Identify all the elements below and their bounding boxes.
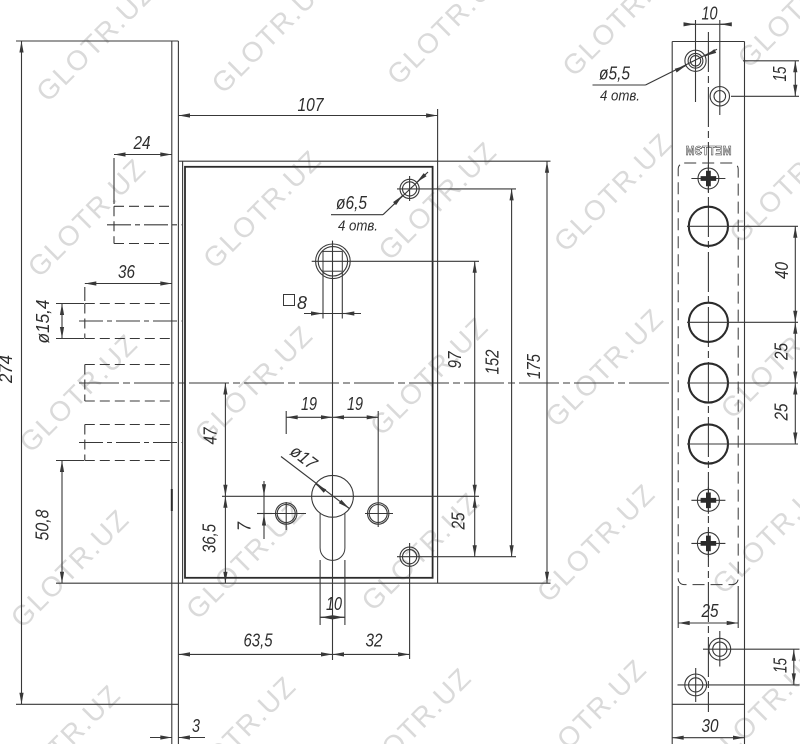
latch bolt hidden bottom edge <box>114 243 172 245</box>
dimension 10 text <box>326 594 342 614</box>
dimension 30 text <box>702 716 719 736</box>
dimension 24 text <box>133 133 151 153</box>
deadbolt 3 hidden bottom edge <box>85 460 172 462</box>
dimension 274 line <box>21 41 23 704</box>
label d17 text <box>286 441 321 474</box>
svg-text:50,8: 50,8 <box>33 510 53 541</box>
hole d6.5 top-right outer circle <box>400 179 419 198</box>
phillips screw middle 1 <box>691 487 725 514</box>
hole d6.5 bottom-right inner circle <box>403 550 417 564</box>
left side hole horizontal centerline <box>258 513 306 515</box>
latch bolt hidden top edge <box>114 205 172 207</box>
keyhole horizontal centerline <box>222 495 479 497</box>
svg-text:GLOTR.UZ: GLOTR.UZ <box>347 662 478 744</box>
svg-text:GLOTR.UZ: GLOTR.UZ <box>381 0 512 91</box>
label d6.5 leader arrow 2 <box>417 174 426 183</box>
dimension 25 text right 1 <box>772 342 792 361</box>
label d6.5 underline <box>331 214 383 216</box>
svg-text:GLOTR.UZ: GLOTR.UZ <box>732 0 800 74</box>
faceplate vertical centerline <box>707 32 709 712</box>
dimension 107 text <box>298 95 325 115</box>
left side hole inner circle <box>277 505 295 523</box>
dimension 7 line <box>263 481 265 539</box>
dimension 10 ext left <box>319 560 321 625</box>
left side hole outer circle <box>276 503 297 524</box>
faceplate front right edge <box>744 42 746 744</box>
dimension 25 text right 2 <box>772 403 792 422</box>
dimension 32 text <box>366 631 383 651</box>
dimension 36.5 line <box>224 496 226 583</box>
dimension 36 line <box>85 283 172 285</box>
latch bolt hidden left edge <box>113 206 115 243</box>
svg-text:8: 8 <box>297 293 307 313</box>
dimension 19 right line <box>333 416 379 418</box>
dimension 25 bottom text <box>701 601 720 621</box>
dimension 10 arrow right <box>334 616 344 618</box>
deadbolt 2 hidden top edge <box>85 364 172 366</box>
label 4 holes text <box>338 218 378 235</box>
dimension 50.8 text <box>33 510 53 541</box>
dimension 15 top text <box>770 66 790 82</box>
right side hole horizontal centerline <box>365 513 393 515</box>
dimension 107 line <box>179 115 438 117</box>
dimension 36 extension line <box>84 287 86 301</box>
screw hole d5.5 top middle circle <box>688 53 703 68</box>
dimension 47 text <box>201 427 221 445</box>
svg-text:МЕТТЭМ: МЕТТЭМ <box>686 144 732 158</box>
svg-text:274: 274 <box>0 355 16 384</box>
dimension 15 bottom text <box>771 657 791 673</box>
hole d6.5 bottom-right horizontal centerline <box>397 556 516 558</box>
dimension 25 bottom line <box>678 622 738 624</box>
cylinder hole edge in side view <box>171 489 173 511</box>
label d6.5 leader arrow 1 <box>394 195 403 204</box>
dimension 15 top ext 2 <box>731 95 799 97</box>
keyhole circle d17 <box>312 475 354 517</box>
dimension 10 ext line 1 <box>695 20 697 102</box>
dimension 32 line <box>333 653 410 655</box>
svg-text:25: 25 <box>701 601 720 621</box>
svg-text:25: 25 <box>772 403 792 422</box>
dimension 7 text <box>235 521 255 531</box>
dimension 8 text <box>297 293 307 313</box>
dimension 7 ext <box>257 513 272 515</box>
svg-text:GLOTR.UZ: GLOTR.UZ <box>723 118 800 249</box>
dimension 19 ext left <box>285 411 287 434</box>
svg-text:ø5,5: ø5,5 <box>599 64 631 84</box>
dimension 15 top line <box>794 61 796 97</box>
svg-text:GLOTR.UZ: GLOTR.UZ <box>30 0 161 108</box>
svg-text:15: 15 <box>771 657 791 673</box>
svg-text:19: 19 <box>347 394 363 414</box>
svg-text:GLOTR.UZ: GLOTR.UZ <box>206 0 337 99</box>
dimension 30 line <box>672 737 744 739</box>
dimension 8 line <box>304 313 361 315</box>
dimension 19 left text <box>301 394 317 414</box>
svg-text:GLOTR.UZ: GLOTR.UZ <box>539 302 670 433</box>
dimension 7 arrow bottom <box>263 514 265 526</box>
dimension 15 top ext 1 <box>743 60 799 62</box>
deadbolt 2 hidden bottom edge <box>85 400 172 402</box>
spindle hole outer circle <box>316 244 351 279</box>
hole d6.5 bottom-right vertical centerline and 32 extension <box>409 543 411 659</box>
dimension 40 line <box>794 226 796 322</box>
deadbolt 3 hidden top edge <box>85 424 172 426</box>
bottom screw hole right v-centerline <box>719 631 721 667</box>
dimension 97 text <box>445 351 465 369</box>
faceplate front top edge <box>672 41 744 43</box>
hole d6.5 top-right inner circle <box>403 182 417 196</box>
svg-text:97: 97 <box>445 351 465 369</box>
svg-text:GLOTR.UZ: GLOTR.UZ <box>13 328 144 459</box>
svg-text:GLOTR.UZ: GLOTR.UZ <box>548 127 679 258</box>
dimension 36.5 text <box>200 523 220 553</box>
dimension 50.8 line <box>61 461 63 584</box>
faceplate side view bottom edge extension <box>16 703 178 705</box>
screw hole d5.5 top outer circle <box>685 50 706 71</box>
svg-text:152: 152 <box>483 350 503 375</box>
bottom screw hole right outer circle <box>709 638 731 660</box>
right side hole inner circle <box>369 505 387 523</box>
svg-text:30: 30 <box>702 716 719 736</box>
svg-text:10: 10 <box>702 4 718 24</box>
body outer top edge <box>179 160 551 162</box>
bottom screw hole left v-centerline <box>695 668 697 702</box>
dimension 8 ext right <box>341 272 343 319</box>
dimension 25 line right 1 <box>794 322 796 383</box>
spindle hole horizontal centerline <box>312 260 479 262</box>
label d5.5 underline <box>593 84 646 86</box>
label d17 leader line <box>281 457 349 509</box>
dimension 40 text <box>772 262 792 279</box>
svg-text:24: 24 <box>133 133 151 153</box>
dimension 175 text <box>524 353 544 379</box>
svg-text:40: 40 <box>772 262 792 279</box>
dimension d15.4 ext bottom <box>56 338 84 340</box>
dimension 50.8 ext top <box>56 460 84 462</box>
dimension 175 line <box>546 161 548 583</box>
dimension 15 bottom line <box>793 649 795 685</box>
hole d6.5 top-right horizontal centerline <box>397 188 516 190</box>
deadbolt 1 hidden left edge <box>84 304 86 339</box>
svg-text:15: 15 <box>770 66 790 82</box>
right side hole outer circle <box>368 503 389 524</box>
dimension 47 line <box>224 383 226 496</box>
dimension 3 text <box>192 716 200 736</box>
spindle hole inner circle <box>318 247 347 276</box>
label d5.5 4 holes text <box>600 88 640 105</box>
svg-text:107: 107 <box>298 95 325 115</box>
faceplate side view top edge <box>16 40 178 42</box>
bottom screw hole left inner circle <box>689 678 703 692</box>
svg-text:ø15,4: ø15,4 <box>33 300 53 344</box>
dimension 25 bottom ext right <box>737 586 739 628</box>
svg-text:175: 175 <box>524 353 544 379</box>
deadbolt 1 hidden top edge <box>85 303 172 305</box>
dimension 152 text <box>483 350 503 375</box>
faceplate side view front face line <box>171 41 173 744</box>
svg-text:7: 7 <box>235 521 255 531</box>
dimension 10 top arrow right <box>720 23 730 25</box>
svg-text:36,5: 36,5 <box>200 523 220 553</box>
hole d6.5 top-right vertical centerline <box>409 176 411 201</box>
svg-text:ø17: ø17 <box>286 441 321 474</box>
label d6.5 text <box>336 193 368 213</box>
bottom screw hole right inner circle <box>713 642 727 656</box>
dimension 10 ext line 2 <box>719 20 721 115</box>
label d5.5 arrow 2 <box>705 52 714 57</box>
screw hole d5.5 top inner circle <box>690 56 700 66</box>
dimension 3 line left segment <box>150 737 172 739</box>
dimension 7 arrow top <box>263 484 265 496</box>
dimension 36 text <box>118 262 136 282</box>
hole d6.5 bottom-right outer circle <box>400 547 419 566</box>
screw hole top-right outer circle <box>710 87 729 106</box>
body inner thick outline <box>185 167 433 578</box>
latch bolt centerline <box>107 224 182 226</box>
dimension 10 top arrow left <box>685 23 695 25</box>
svg-text:47: 47 <box>201 427 221 445</box>
svg-text:4 отв.: 4 отв. <box>600 88 640 105</box>
svg-text:GLOTR.UZ: GLOTR.UZ <box>180 495 311 626</box>
bolt hole circle 1 (latch) <box>687 207 798 246</box>
deadbolt 1 centerline <box>79 320 182 322</box>
hidden lock body dashed outline <box>678 163 738 585</box>
bottom screw hole right h-centerline <box>703 648 800 650</box>
main horizontal centerline <box>79 382 672 384</box>
dimension 274 text <box>0 355 16 384</box>
deadbolt 2 hidden left edge <box>84 365 86 402</box>
bolt hole circle 3 <box>687 363 798 402</box>
spindle square hole <box>323 251 342 271</box>
dimension d15.4 text <box>33 300 53 344</box>
svg-text:GLOTR.UZ: GLOTR.UZ <box>522 653 653 744</box>
dimension 10 arrow left <box>321 616 331 618</box>
dimension 152 line <box>511 189 513 557</box>
label d5.5 text <box>599 64 631 84</box>
dimension d15.4 ext top <box>56 303 84 305</box>
dimension d15.4 line <box>61 304 63 339</box>
dimension 19 ext right <box>377 411 379 527</box>
left side hole vertical centerline <box>285 502 287 530</box>
svg-text:GLOTR.UZ: GLOTR.UZ <box>706 469 800 600</box>
dimension 25 bottom ext left <box>677 586 679 628</box>
dimension 10 top text <box>702 4 718 24</box>
vertical centerline through spindle and keyhole <box>332 241 334 660</box>
svg-text:10: 10 <box>326 594 342 614</box>
screw hole top-right inner circle <box>714 91 726 103</box>
phillips screw middle 2 <box>691 530 725 557</box>
label d17 arrow lower <box>340 501 349 508</box>
body outer right edge and 107 extension <box>437 109 439 583</box>
faceplate front left edge <box>671 42 673 744</box>
svg-text:GLOTR.UZ: GLOTR.UZ <box>531 478 662 609</box>
label d5.5 leader line <box>646 49 718 85</box>
svg-text:25: 25 <box>449 512 469 531</box>
body outer bottom edge extension <box>56 582 551 584</box>
faceplate side view back face line <box>177 41 179 744</box>
dimension 19 right text <box>347 394 363 414</box>
faceplate front bottom edge <box>672 703 744 705</box>
dimension 3 line right segment <box>178 737 205 739</box>
dimension 24 line <box>114 154 172 156</box>
dimension 10 top line <box>684 23 731 25</box>
svg-text:GLOTR.UZ: GLOTR.UZ <box>355 486 486 617</box>
deadbolt 3 centerline <box>79 442 182 444</box>
label d17 arrow upper <box>316 484 325 491</box>
deadbolt 1 hidden bottom edge <box>85 338 172 340</box>
dimension 25 line front view <box>474 496 476 556</box>
svg-text:32: 32 <box>366 631 383 651</box>
dimension 63.5 line <box>179 653 333 655</box>
phillips screw top <box>691 165 725 192</box>
svg-text:GLOTR.UZ: GLOTR.UZ <box>0 678 127 744</box>
dimension 10 ext right <box>344 560 346 625</box>
svg-text:4 отв.: 4 отв. <box>338 218 378 235</box>
dimension 63.5 text <box>244 631 274 651</box>
dimension 25 text front view <box>449 512 469 531</box>
bottom screw hole left outer circle <box>685 674 707 696</box>
keyhole slot <box>320 513 345 560</box>
dimension 8 arrow left <box>311 313 323 315</box>
dimension 25 line right 2 <box>794 383 796 444</box>
dimension 24 extension line <box>113 158 115 204</box>
label d6.5 leader line <box>383 172 428 215</box>
svg-text:63,5: 63,5 <box>244 631 274 651</box>
svg-text:25: 25 <box>772 342 792 361</box>
bottom screw hole left h-centerline <box>678 684 800 686</box>
svg-text:19: 19 <box>301 394 317 414</box>
dimension 10 line <box>320 616 345 618</box>
dimension 19 left line <box>286 416 332 418</box>
svg-text:GLOTR.UZ: GLOTR.UZ <box>197 144 328 275</box>
dimension 8 arrow right <box>343 313 354 315</box>
dimension 8 ext left <box>322 272 324 319</box>
svg-text:GLOTR.UZ: GLOTR.UZ <box>5 503 136 634</box>
METTEM logo mirrored <box>686 144 732 158</box>
svg-text:36: 36 <box>118 262 136 282</box>
label d5.5 arrow 1 <box>677 66 686 71</box>
svg-text:ø6,5: ø6,5 <box>336 193 368 213</box>
body outer left edge <box>182 161 184 583</box>
bolt hole circle 2 <box>687 303 798 342</box>
svg-text:3: 3 <box>192 716 200 736</box>
deadbolt 3 hidden left edge <box>84 425 86 461</box>
bolt hole circle 4 <box>687 424 798 463</box>
dimension 97 line <box>474 261 476 496</box>
square symbol <box>284 295 295 306</box>
